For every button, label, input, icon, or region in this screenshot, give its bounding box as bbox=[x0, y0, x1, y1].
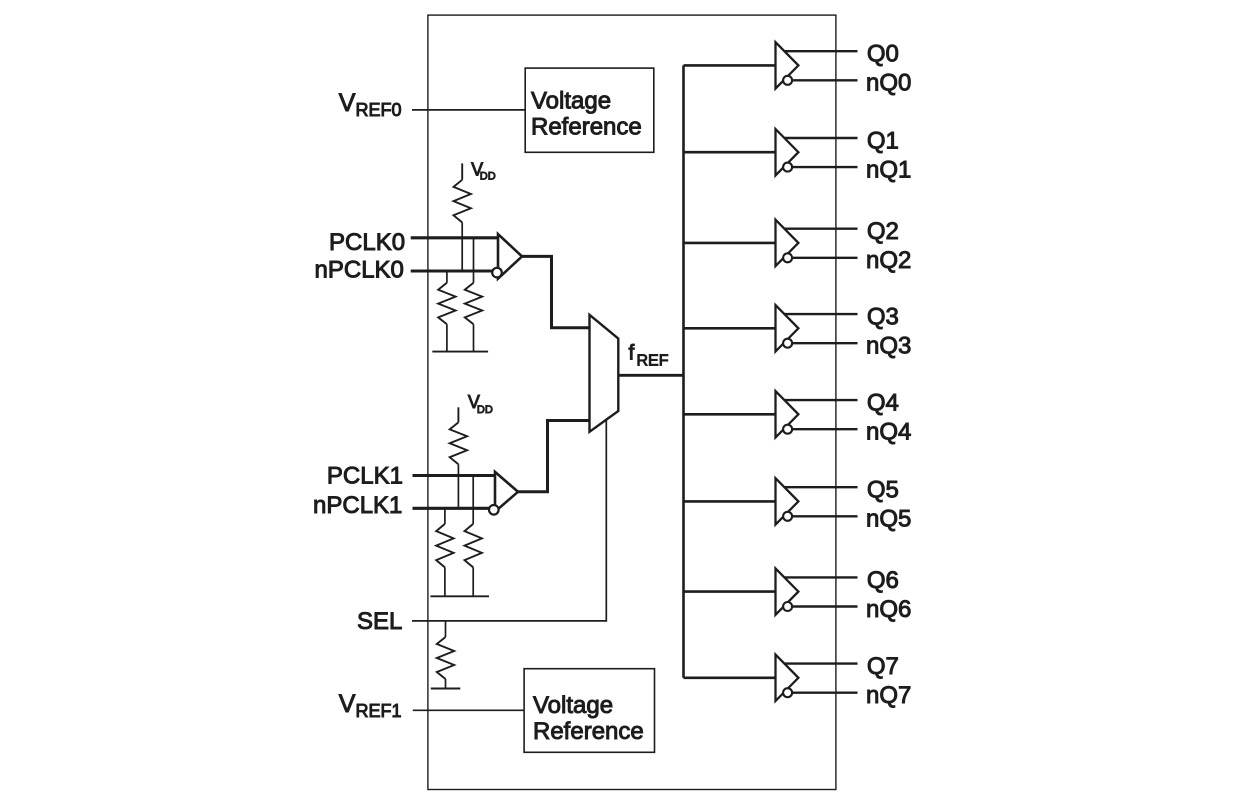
branch wire to output buffer 3 bbox=[684, 327, 776, 330]
Q4 output wire bbox=[783, 399, 858, 401]
VDD power symbol (bottom) bbox=[458, 392, 492, 423]
VREF1 wire bbox=[413, 709, 524, 711]
Q2 output wire bbox=[783, 227, 858, 229]
svg-text:nQ4: nQ4 bbox=[866, 419, 911, 446]
svg-text:nQ5: nQ5 bbox=[866, 506, 911, 533]
output buffer 5 bbox=[776, 478, 799, 524]
svg-text:SEL: SEL bbox=[357, 608, 402, 635]
svg-text:Q0: Q0 bbox=[867, 41, 899, 68]
voltage reference block (bottom) bbox=[524, 669, 654, 753]
svg-text:Voltage: Voltage bbox=[533, 692, 613, 719]
svg-text:PCLK0: PCLK0 bbox=[329, 229, 405, 256]
output buffer 7 bbox=[776, 655, 799, 701]
output buffer 3 bbox=[776, 305, 799, 351]
nQ3 output wire bbox=[788, 342, 858, 344]
svg-text:f: f bbox=[629, 341, 635, 364]
svg-text:nPCLK0: nPCLK0 bbox=[315, 257, 404, 284]
svg-text:PCLK1: PCLK1 bbox=[327, 463, 403, 490]
voltage reference block (top) bbox=[525, 68, 654, 152]
Q0 output wire bbox=[783, 50, 858, 52]
svg-text:nQ7: nQ7 bbox=[866, 682, 911, 709]
input buffer (PCLK1) output wire to mux bbox=[516, 421, 590, 492]
Q6 output wire bbox=[783, 576, 858, 578]
VDD power symbol (top) bbox=[462, 159, 496, 182]
Q3 output wire bbox=[783, 313, 858, 315]
pulldown resistor on nPCLK0 bbox=[438, 271, 455, 352]
pullup resistor on nPCLK1 bbox=[450, 422, 467, 508]
VREF0 wire bbox=[412, 109, 525, 111]
output buffer 6 bbox=[776, 568, 799, 614]
svg-text:nQ1: nQ1 bbox=[866, 156, 911, 183]
clock select mux bbox=[590, 315, 619, 432]
ground bar (SEL) bbox=[431, 688, 461, 690]
nQ5 output wire bbox=[788, 515, 858, 517]
branch wire to output buffer 5 bbox=[684, 500, 776, 503]
branch wire to output buffer 4 bbox=[684, 413, 776, 416]
pulldown resistor on nPCLK1 bbox=[436, 508, 453, 596]
svg-text:Q1: Q1 bbox=[867, 128, 899, 155]
svg-text:Reference: Reference bbox=[531, 114, 642, 141]
PCLK1 input wire bbox=[413, 474, 496, 477]
ground bar (top input group) bbox=[432, 351, 488, 353]
nQ6 output wire bbox=[788, 605, 858, 607]
svg-text:Q4: Q4 bbox=[867, 390, 899, 417]
pullup resistor on nPCLK0 bbox=[454, 180, 471, 271]
svg-text:Voltage: Voltage bbox=[531, 88, 611, 115]
svg-text:nQ0: nQ0 bbox=[866, 70, 911, 97]
nQ2 output wire bbox=[788, 257, 858, 259]
branch wire to output buffer 0 bbox=[684, 64, 776, 67]
nPCLK1 input wire bbox=[413, 507, 495, 510]
svg-text:Q6: Q6 bbox=[867, 567, 899, 594]
svg-text:nPCLK1: nPCLK1 bbox=[313, 492, 402, 519]
nQ0 output wire bbox=[788, 79, 858, 81]
chip boundary bbox=[428, 15, 836, 789]
svg-text:Q7: Q7 bbox=[867, 653, 899, 680]
branch wire to output buffer 1 bbox=[684, 151, 776, 154]
svg-text:DD: DD bbox=[477, 404, 493, 416]
svg-text:Q3: Q3 bbox=[867, 304, 899, 331]
ground bar (bottom input group) bbox=[430, 595, 489, 597]
output buffer 2 bbox=[776, 220, 799, 266]
svg-text:Q2: Q2 bbox=[867, 218, 899, 245]
differential input buffer (PCLK1/nPCLK1) bbox=[489, 472, 518, 515]
svg-text:nQ3: nQ3 bbox=[866, 333, 911, 360]
fREF distribution bus bbox=[682, 65, 685, 677]
svg-text:nQ2: nQ2 bbox=[866, 247, 911, 274]
svg-text:nQ6: nQ6 bbox=[866, 596, 911, 623]
svg-text:REF: REF bbox=[637, 352, 669, 369]
input buffer (PCLK0) output wire to mux bbox=[520, 256, 590, 327]
branch wire to output buffer 2 bbox=[684, 242, 776, 245]
PCLK0 input wire bbox=[411, 236, 498, 239]
nPCLK0 input wire bbox=[411, 269, 497, 272]
nQ1 output wire bbox=[788, 166, 858, 168]
Q7 output wire bbox=[783, 662, 858, 664]
pulldown resistor on PCLK1 bbox=[465, 476, 482, 597]
pulldown resistor on SEL bbox=[437, 621, 454, 689]
pulldown resistor on PCLK0 bbox=[465, 238, 482, 352]
Q5 output wire bbox=[783, 486, 858, 488]
svg-text:DD: DD bbox=[480, 170, 496, 182]
svg-text:Q5: Q5 bbox=[867, 477, 899, 504]
svg-text:Reference: Reference bbox=[533, 718, 644, 745]
branch wire to output buffer 6 bbox=[684, 590, 776, 593]
differential input buffer (PCLK0/nPCLK0) bbox=[492, 234, 522, 279]
nQ4 output wire bbox=[788, 428, 858, 430]
output buffer 1 bbox=[776, 129, 799, 175]
Q1 output wire bbox=[783, 137, 858, 139]
output buffer 4 bbox=[776, 391, 799, 437]
output buffer 0 bbox=[776, 42, 799, 88]
fREF wire from mux to output bus bbox=[618, 374, 683, 377]
nQ7 output wire bbox=[788, 692, 858, 694]
branch wire to output buffer 7 bbox=[684, 676, 776, 679]
SEL wire to mux select input bbox=[412, 420, 606, 621]
